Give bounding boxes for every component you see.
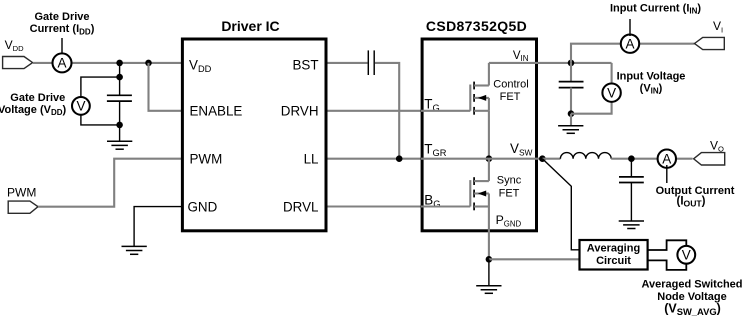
svg-text:Control: Control	[493, 78, 528, 90]
junction dot voltmeter top	[116, 74, 123, 81]
wire TGR to VSW	[421, 158, 542, 160]
label Gate Drive Voltage (VDD)	[0, 92, 67, 117]
junction dot VDD/enable branch	[145, 60, 152, 67]
svg-text:VDD: VDD	[5, 38, 24, 53]
wire DRVL to BG	[328, 205, 422, 207]
wire VSW to inductor	[542, 158, 560, 160]
wire sync FET source to PGND	[488, 207, 490, 260]
junction dot PGND node	[486, 256, 493, 263]
svg-text:GND: GND	[188, 199, 218, 214]
junction dot VDD/cap branch	[116, 60, 123, 67]
svg-text:V: V	[682, 247, 691, 262]
svg-text:FET: FET	[499, 187, 520, 199]
label Gate Drive Current (IDD)	[30, 11, 95, 36]
svg-text:CSD87352Q5D: CSD87352Q5D	[426, 18, 527, 34]
svg-text:(VIN): (VIN)	[640, 83, 663, 96]
wire BG to sync FET gate	[421, 205, 470, 207]
wire PGND to averaging circuit	[489, 258, 580, 260]
svg-text:VO: VO	[710, 138, 724, 153]
svg-text:DRVL: DRVL	[283, 199, 318, 214]
junction dot VIN branch	[568, 60, 575, 67]
label Control FET	[493, 78, 528, 103]
wire control FET drain to VIN	[489, 62, 612, 64]
svg-text:LL: LL	[304, 151, 319, 166]
svg-text:BST: BST	[292, 58, 318, 73]
svg-text:Gate Drive: Gate Drive	[10, 92, 65, 104]
wire enable branch	[149, 63, 185, 111]
svg-text:(IOUT): (IOUT)	[676, 195, 705, 208]
svg-text:ENABLE: ENABLE	[190, 103, 243, 118]
svg-text:Averaging: Averaging	[587, 243, 640, 255]
ammeter A1 gate drive current	[53, 53, 72, 72]
wire voltmeter V1 bottom loop	[81, 112, 120, 125]
svg-text:PWM: PWM	[7, 186, 36, 200]
connector tag VO	[694, 153, 725, 165]
wire GND pin to ground	[134, 207, 184, 247]
label Input Voltage (VIN)	[617, 71, 686, 96]
wire PGND to ground	[488, 259, 490, 286]
svg-text:Voltage (VDD): Voltage (VDD)	[0, 104, 67, 117]
label Averaging Circuit	[587, 243, 640, 267]
Driver IC box	[182, 39, 326, 231]
svg-text:V: V	[76, 99, 85, 114]
leader line input current	[629, 19, 631, 36]
svg-text:Output Current: Output Current	[656, 185, 735, 197]
label Averaged Switched Node Voltage (VSW_AVG)	[641, 279, 742, 316]
junction dot cap bottom	[116, 122, 123, 129]
connector tag PWM	[8, 201, 38, 213]
transistor Q1 control FET	[470, 63, 489, 115]
svg-text:A: A	[662, 151, 671, 166]
junction dot input cap bottom	[568, 110, 575, 117]
wire LL to TGR	[328, 158, 422, 160]
svg-text:Input Current (IIN): Input Current (IIN)	[610, 3, 701, 16]
Averaging Circuit box	[580, 240, 648, 270]
svg-text:Sync: Sync	[497, 175, 522, 187]
svg-text:(VSW_AVG): (VSW_AVG)	[664, 302, 721, 316]
wire input ground stub	[570, 114, 572, 126]
wire VIN branch down to cap	[570, 63, 572, 82]
junction dot VSW node inside	[486, 155, 493, 162]
svg-text:VI: VI	[713, 19, 723, 34]
svg-text:A: A	[625, 36, 634, 51]
leader line to ammeter A1	[61, 38, 63, 54]
wire cap C3 bottom	[570, 88, 572, 114]
wire voltmeter V2 top	[611, 63, 613, 90]
label Sync FET	[497, 175, 522, 200]
svg-text:FET: FET	[500, 91, 521, 103]
junction dot BST/LL	[396, 155, 403, 162]
svg-text:DRVH: DRVH	[281, 103, 319, 118]
svg-text:Input Voltage: Input Voltage	[617, 71, 686, 83]
ammeter A3 output current	[658, 150, 676, 168]
ground G2 driver GND	[122, 246, 147, 254]
wire TG to control FET gate	[421, 110, 470, 112]
capacitor C3 input	[559, 82, 584, 88]
wire VDD tag to ammeter	[33, 62, 184, 64]
junction dot output cap	[628, 155, 635, 162]
wire inductor to output node	[611, 158, 692, 160]
svg-text:Current (IDD): Current (IDD)	[30, 23, 95, 36]
svg-text:Driver IC: Driver IC	[221, 18, 279, 34]
ground G1	[107, 141, 132, 149]
ground G3 power ground	[476, 286, 501, 294]
wire output cap top	[630, 159, 632, 177]
connector tag VI	[695, 37, 725, 49]
capacitor C1 gate drive	[107, 95, 132, 101]
capacitor C2 bootstrap	[368, 50, 374, 75]
wire averaging output bottom	[648, 260, 687, 270]
voltmeter V3 averaged switched node	[677, 246, 695, 264]
voltmeter V1 gate drive voltage	[72, 97, 90, 115]
wire cap C1 bottom	[119, 101, 121, 141]
connector tag VDD	[3, 57, 33, 69]
wire cap branch down	[119, 63, 121, 95]
svg-text:A: A	[57, 56, 66, 71]
wire control FET source to VSW	[488, 111, 490, 159]
svg-text:Gate Drive: Gate Drive	[34, 11, 89, 23]
svg-text:PWM: PWM	[190, 151, 223, 166]
wire DRVH to TG	[328, 110, 422, 112]
ammeter A2 input current	[621, 35, 639, 53]
wire VSW diagonal to averaging circuit	[542, 159, 579, 250]
voltmeter V2 input voltage	[602, 84, 620, 102]
wire BST to cap C2	[328, 62, 368, 64]
junction dot VSW external	[539, 155, 546, 162]
svg-text:V: V	[607, 85, 616, 100]
wire voltmeter V1 top loop	[81, 77, 120, 100]
inductor L1	[560, 153, 611, 159]
wire averaging output top	[648, 240, 687, 250]
ground G5 output	[619, 221, 644, 229]
wire output cap bottom	[630, 183, 632, 222]
CSD87352Q5D box	[422, 39, 536, 231]
svg-text:Averaged Switched: Averaged Switched	[641, 279, 742, 291]
leader line output current	[666, 165, 668, 183]
label Output Current (IOUT)	[656, 185, 735, 209]
transistor Q2 sync FET	[470, 159, 489, 211]
wire VIN up to ammeter A2	[571, 44, 695, 63]
ground G4 input	[558, 126, 583, 134]
wire voltmeter V2 bottom	[571, 96, 612, 114]
capacitor C4 output	[619, 177, 644, 183]
svg-text:Circuit: Circuit	[596, 255, 631, 267]
wire cap C2 to LL node	[375, 63, 399, 159]
wire PWM tag to Driver IC	[38, 159, 184, 207]
